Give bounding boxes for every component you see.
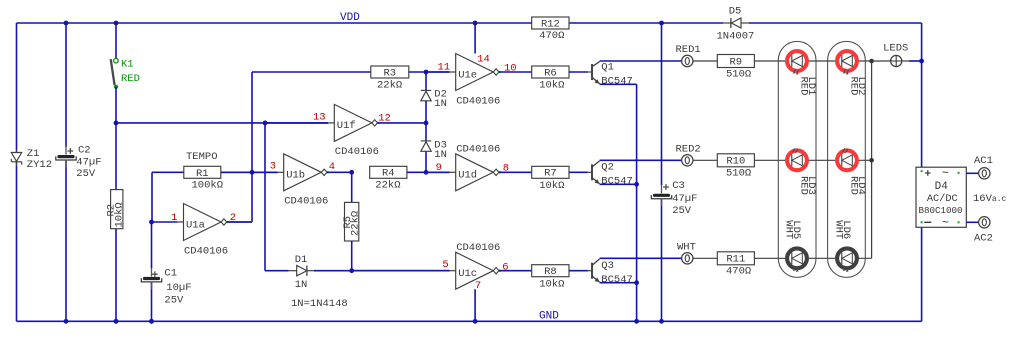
svg-text:R12: R12 — [541, 19, 560, 31]
svg-text:RED: RED — [121, 73, 140, 85]
svg-text:2: 2 — [230, 212, 236, 224]
svg-text:AC/DC: AC/DC — [927, 193, 958, 205]
svg-text:BC547: BC547 — [601, 274, 633, 286]
svg-text:RED1: RED1 — [676, 44, 701, 56]
svg-text:5: 5 — [442, 259, 448, 271]
svg-text:22kΩ: 22kΩ — [377, 80, 402, 92]
svg-text:14: 14 — [477, 54, 490, 66]
svg-text:22kΩ: 22kΩ — [350, 211, 362, 236]
svg-text:D5: D5 — [729, 6, 742, 18]
svg-text:25V: 25V — [672, 205, 692, 217]
svg-text:12: 12 — [378, 112, 391, 124]
svg-text:10µF: 10µF — [166, 282, 191, 294]
svg-text:K1: K1 — [121, 59, 134, 71]
svg-text:R11: R11 — [726, 254, 745, 266]
svg-text:6: 6 — [502, 262, 508, 274]
svg-text:1N=1N4148: 1N=1N4148 — [291, 298, 348, 310]
svg-text:510Ω: 510Ω — [726, 68, 751, 80]
svg-text:CD40106: CD40106 — [335, 146, 379, 158]
svg-text:U1e: U1e — [458, 69, 477, 81]
svg-text:D4: D4 — [935, 181, 949, 193]
svg-text:RED: RED — [797, 176, 809, 195]
svg-text:CD40106: CD40106 — [184, 245, 228, 257]
svg-text:47µF: 47µF — [76, 157, 101, 169]
svg-text:R3: R3 — [383, 68, 396, 80]
svg-text:B80C1000: B80C1000 — [918, 205, 962, 216]
svg-text:25V: 25V — [76, 168, 96, 180]
svg-text:1N: 1N — [434, 98, 447, 110]
svg-text:470Ω: 470Ω — [726, 266, 751, 278]
svg-text:WHT: WHT — [782, 220, 794, 239]
svg-text:Q2: Q2 — [601, 162, 614, 174]
svg-text:RED: RED — [847, 176, 859, 195]
svg-text:1N: 1N — [434, 149, 447, 161]
svg-text:RED: RED — [847, 77, 859, 96]
svg-text:8: 8 — [503, 163, 509, 175]
svg-text:R4: R4 — [382, 168, 395, 180]
svg-text:R9: R9 — [729, 56, 742, 68]
svg-text:Q1: Q1 — [601, 61, 614, 73]
svg-text:RED2: RED2 — [676, 143, 701, 155]
svg-text:R10: R10 — [726, 156, 745, 168]
svg-text:VDD: VDD — [340, 12, 360, 24]
svg-text:10kΩ: 10kΩ — [539, 180, 564, 192]
svg-text:1: 1 — [171, 212, 177, 224]
svg-text:C3: C3 — [672, 180, 685, 192]
svg-text:U1d: U1d — [458, 170, 477, 182]
svg-text:C2: C2 — [78, 144, 91, 156]
svg-text:BC547: BC547 — [601, 176, 633, 188]
svg-text:TEMPO: TEMPO — [186, 151, 218, 163]
svg-text:3: 3 — [270, 161, 276, 173]
svg-text:CD40106: CD40106 — [456, 242, 500, 254]
svg-text:1N: 1N — [295, 279, 308, 291]
svg-text:Q3: Q3 — [601, 260, 614, 272]
svg-text:4: 4 — [329, 161, 335, 173]
svg-text:R8: R8 — [544, 266, 557, 278]
svg-text:10kΩ: 10kΩ — [539, 80, 564, 92]
svg-text:D1: D1 — [295, 254, 308, 266]
svg-text:22kΩ: 22kΩ — [375, 179, 400, 191]
svg-text:BC547: BC547 — [601, 75, 633, 87]
svg-text:C1: C1 — [164, 268, 177, 280]
svg-text:CD40106: CD40106 — [456, 144, 500, 156]
svg-text:13: 13 — [313, 112, 326, 124]
svg-text:RED: RED — [797, 77, 809, 96]
svg-text:470Ω: 470Ω — [539, 30, 564, 42]
svg-text:CD40106: CD40106 — [284, 196, 328, 208]
svg-text:WHT: WHT — [832, 220, 844, 239]
svg-text:~: ~ — [942, 167, 949, 180]
svg-text:R6: R6 — [544, 67, 557, 79]
svg-text:U1a: U1a — [186, 219, 205, 231]
svg-text:10kΩ: 10kΩ — [114, 202, 126, 227]
svg-text:10kΩ: 10kΩ — [539, 278, 564, 290]
svg-text:510Ω: 510Ω — [726, 168, 751, 180]
svg-text:U1c: U1c — [458, 268, 477, 280]
svg-text:R1: R1 — [196, 168, 209, 180]
svg-text:10: 10 — [504, 63, 517, 75]
svg-text:WHT: WHT — [677, 241, 696, 253]
svg-text:AC1: AC1 — [974, 155, 993, 167]
svg-text:U1b: U1b — [286, 170, 305, 182]
svg-text:16Va.c: 16Va.c — [973, 193, 1007, 205]
svg-text:CD40106: CD40106 — [456, 95, 500, 107]
svg-text:LEDS: LEDS — [883, 43, 908, 55]
svg-text:R7: R7 — [544, 168, 557, 180]
svg-text:100kΩ: 100kΩ — [192, 180, 224, 192]
svg-text:AC2: AC2 — [974, 233, 993, 245]
svg-text:1N4007: 1N4007 — [717, 31, 755, 43]
svg-text:ZY12: ZY12 — [27, 159, 52, 171]
svg-text:U1f: U1f — [337, 120, 356, 132]
svg-text:47µF: 47µF — [672, 193, 697, 205]
svg-text:GND: GND — [539, 311, 559, 323]
svg-text:25V: 25V — [164, 294, 184, 306]
svg-text:~: ~ — [942, 217, 949, 230]
